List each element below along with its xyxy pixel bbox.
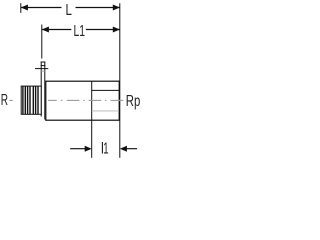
- dimension L line left segment: [21, 7, 62, 9]
- stub (vent screw) on top of flange: [35, 62, 48, 120]
- upper bore line: [92, 89, 119, 91]
- thread hatch: [23, 86, 38, 114]
- svg-text:R: R: [1, 91, 9, 109]
- dimension L1 line left segment: [42, 29, 72, 31]
- dimension L1 arrow right: [113, 27, 120, 33]
- dimension l1 arrow left (pointing right): [85, 146, 92, 152]
- dimension l1 line right tail: [126, 148, 137, 150]
- stub gray rung: [41, 70, 45, 72]
- dimension L1 line right segment: [86, 29, 120, 31]
- dimension L extension line left: [20, 3, 22, 13]
- dimension L arrow left: [21, 5, 28, 11]
- svg-text:L: L: [66, 0, 73, 18]
- dimension l1 arrow right (pointing left): [120, 146, 127, 152]
- svg-text:1: 1: [103, 139, 108, 157]
- svg-text:Rp: Rp: [126, 91, 141, 109]
- svg-text:L1: L1: [74, 22, 86, 40]
- right extension line (shared by L, L1, l1): [119, 3, 121, 158]
- thread block R: [21, 86, 41, 114]
- dimension L line right segment: [76, 7, 120, 9]
- dimension L arrow right: [113, 5, 120, 11]
- inner socket vertical line + l1 left extension: [91, 82, 93, 158]
- lower bore line (light): [92, 110, 119, 112]
- body (socket) rectangle: [46, 81, 119, 120]
- dimension l1 line left tail: [70, 148, 85, 150]
- dimension L1 extension line left: [41, 25, 43, 59]
- centerline: [9, 99, 123, 101]
- dimension L1 arrow left: [42, 27, 49, 33]
